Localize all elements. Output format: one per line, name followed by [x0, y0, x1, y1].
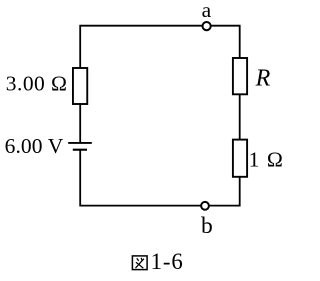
svg-text:6.00 V: 6.00 V [5, 134, 64, 158]
svg-text:R: R [255, 66, 271, 92]
kanji 図 inner stroke: long diagonal of メ [136, 259, 144, 268]
kanji 図 inner dot right [140, 258, 143, 261]
battery V1 long plate (+) [68, 142, 92, 144]
node a terminal circle [203, 22, 211, 30]
resistor 3.00 Ω (left box) [73, 68, 87, 104]
kanji 図 inner stroke: crossing stroke of メ [136, 262, 143, 268]
svg-text:1 Ω: 1 Ω [249, 148, 284, 172]
caption 図 1-6 (kanji drawn as strokes) [132, 256, 147, 270]
svg-text:b: b [201, 213, 213, 239]
svg-text:1-6: 1-6 [151, 249, 184, 274]
kanji 図 inner dot left [137, 258, 139, 261]
svg-text:a: a [202, 0, 212, 22]
svg-text:3.00 Ω: 3.00 Ω [6, 72, 68, 96]
resistor R (right top box) [233, 58, 247, 94]
kanji 図 enclosure [132, 256, 147, 270]
resistor 1 Ω (right bottom box) [233, 140, 247, 177]
battery V1 short plate (-) [73, 149, 87, 151]
node b terminal circle [201, 202, 209, 210]
wire (main loop: from battery top plate, up left side, across top, down right side, across bottom, up to battery bottom plate) [80, 26, 240, 206]
